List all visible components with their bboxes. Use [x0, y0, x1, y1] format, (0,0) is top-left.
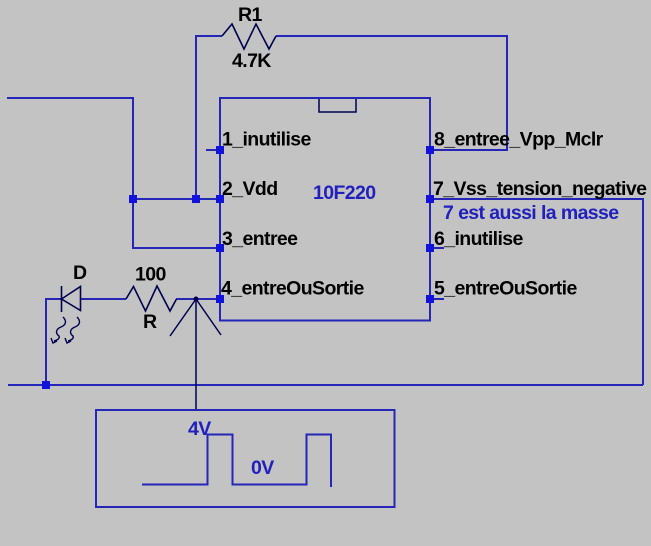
resistor R1	[222, 24, 276, 49]
svg-text:2_Vdd: 2_Vdd	[222, 178, 278, 200]
svg-text:4_entreOuSortie: 4_entreOuSortie	[221, 278, 364, 300]
wire: pin 1 stub	[206, 149, 220, 151]
svg-text:10F220: 10F220	[313, 182, 376, 204]
wire: pin 6 stub	[430, 247, 444, 249]
svg-text:7 est aussi la masse: 7 est aussi la masse	[443, 202, 619, 224]
wire: pin 7 to right edge and down to bottom rail	[430, 199, 643, 385]
pulse waveform	[142, 435, 331, 488]
svg-text:4.7K: 4.7K	[232, 50, 271, 72]
svg-text:100: 100	[135, 264, 166, 286]
svg-text:0V: 0V	[251, 457, 274, 479]
pulse source box	[96, 410, 395, 507]
notch	[319, 99, 356, 112]
svg-text:5_entreOuSortie: 5_entreOuSortie	[434, 278, 577, 300]
wire: bottom rail	[8, 384, 643, 386]
diode D (LED)	[62, 286, 81, 312]
resistor R (100)	[126, 286, 177, 311]
wire: R1 left lead and vertical to node	[196, 36, 222, 199]
wire: node row to pin 2	[133, 198, 220, 200]
svg-text:3_entree: 3_entree	[222, 228, 298, 250]
svg-text:R1: R1	[238, 4, 262, 26]
LED light arrows	[51, 317, 79, 343]
wire: LED anode to resistor R	[80, 298, 126, 300]
wire: LED cathode lead and drop to rail	[46, 299, 61, 385]
wire: left vertical down from top-left	[132, 97, 134, 199]
svg-text:8_entree_Vpp_Mclr: 8_entree_Vpp_Mclr	[434, 129, 604, 151]
svg-text:R: R	[143, 311, 157, 333]
wire: pin 5 stub	[430, 298, 444, 300]
svg-text:1_inutilise: 1_inutilise	[222, 129, 312, 151]
svg-text:D: D	[73, 262, 87, 284]
wire: resistor R to pin 4	[176, 298, 220, 300]
junction squares	[42, 146, 434, 389]
wire: R1 right lead to pin 8	[276, 36, 507, 150]
svg-text:7_Vss_tension_negative: 7_Vss_tension_negative	[433, 178, 647, 200]
wire: down then right to pin 3	[133, 199, 220, 248]
node A: three-prong tap at pin4 net	[170, 299, 221, 410]
svg-text:4V: 4V	[188, 418, 211, 440]
op-amp U1 10F220 IC body	[220, 98, 430, 321]
wire: top-left horizontal	[7, 97, 133, 99]
svg-text:6_inutilise: 6_inutilise	[434, 228, 524, 250]
